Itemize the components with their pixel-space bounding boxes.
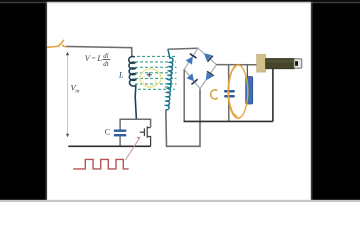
wire device return <box>272 69 274 122</box>
transistor Q1 MOSFET <box>140 126 151 146</box>
svg-text:=: = <box>92 54 96 63</box>
highlight ellipse output <box>228 65 248 118</box>
svg-text:L: L <box>96 54 102 63</box>
gate drive square wave <box>73 159 129 169</box>
label C output <box>211 90 218 99</box>
bridge rectifier frame <box>184 48 216 88</box>
diode D3 bottom-left <box>186 73 197 84</box>
wire output left branch <box>228 65 230 122</box>
wire secondary bottom return <box>166 89 200 147</box>
letterbox left <box>0 0 46 202</box>
secondary winding <box>166 49 174 110</box>
inductor L primary winding <box>129 57 137 120</box>
Vin measurement arrow <box>66 52 69 137</box>
formula V = L di/dt <box>85 53 111 68</box>
diode D2 top-right <box>201 50 212 61</box>
letterbox right <box>313 0 360 202</box>
wire output bottom rail <box>184 120 273 122</box>
wire resistor branch <box>246 65 248 102</box>
diode D1 top-left <box>186 54 197 65</box>
arrow square wave to gate <box>125 137 140 160</box>
wire bottom rail primary <box>68 145 151 147</box>
wire horizontal above MOSFET <box>120 119 151 132</box>
label Vin <box>71 83 80 95</box>
top border line <box>0 0 360 2</box>
flux lines (magnetic coupling dashes) <box>135 56 177 89</box>
wire top rail primary <box>66 46 132 57</box>
highlight circle with plus <box>140 69 161 87</box>
plus sign <box>147 72 152 77</box>
resistor R load <box>246 77 253 105</box>
wire bridge plus to load rail <box>216 64 257 66</box>
wire capacitor to bottom rail <box>119 137 121 146</box>
device holder tan block <box>257 54 266 72</box>
bottom border line <box>0 200 360 202</box>
device tip <box>294 59 302 68</box>
device body olive bar <box>266 59 295 69</box>
switch S1 <box>47 40 66 47</box>
capacitor C primary <box>114 131 126 136</box>
wire bridge minus to bottom <box>183 69 185 121</box>
diode D4 bottom-right <box>203 71 214 82</box>
induced current arrow <box>167 86 172 90</box>
capacitor C output <box>225 91 233 96</box>
wire secondary top to bridge <box>168 48 199 49</box>
svg-text:C: C <box>105 128 111 137</box>
svg-text:in: in <box>75 88 79 94</box>
svg-text:L: L <box>118 71 124 80</box>
